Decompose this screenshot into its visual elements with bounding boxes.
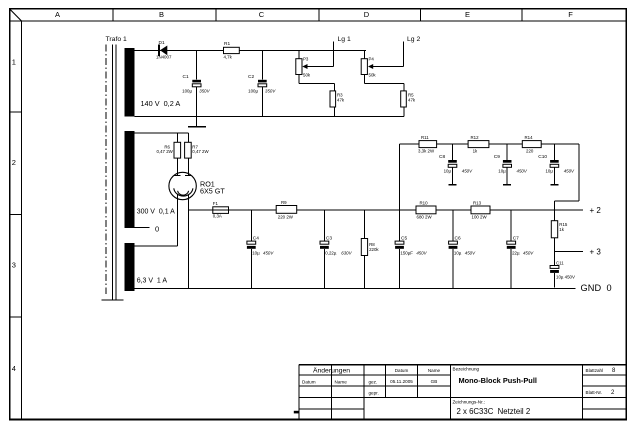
svg-text:C3: C3: [326, 236, 332, 242]
svg-text:Bezeichnung: Bezeichnung: [453, 367, 480, 372]
svg-text:6,3 V 1 A: 6,3 V 1 A: [137, 277, 168, 284]
svg-text:450V: 450V: [263, 251, 274, 256]
svg-text:1N4007: 1N4007: [156, 55, 172, 60]
svg-text:R9: R9: [281, 200, 287, 205]
svg-text:220: 220: [526, 148, 534, 153]
svg-text:22µ: 22µ: [512, 251, 520, 256]
svg-text:450V: 450V: [564, 169, 575, 174]
svg-text:C2: C2: [248, 74, 254, 80]
svg-text:450V: 450V: [465, 251, 476, 256]
svg-text:150µF: 150µF: [400, 251, 413, 256]
svg-text:Mono-Block Push-Pull: Mono-Block Push-Pull: [459, 376, 537, 385]
svg-text:100µ: 100µ: [248, 89, 258, 94]
svg-text:1k: 1k: [473, 148, 478, 153]
svg-text:C6: C6: [455, 236, 461, 242]
svg-text:0,47 2W: 0,47 2W: [156, 149, 173, 154]
svg-text:10µ: 10µ: [444, 169, 452, 174]
svg-text:R11: R11: [421, 135, 429, 140]
svg-text:10µ 450V: 10µ 450V: [556, 274, 575, 279]
svg-text:C: C: [259, 10, 265, 19]
svg-text:4: 4: [12, 364, 16, 373]
svg-text:3,3k 2W: 3,3k 2W: [418, 148, 435, 153]
svg-text:450V: 450V: [517, 169, 528, 174]
svg-text:Name: Name: [428, 368, 441, 373]
svg-text:1: 1: [12, 58, 16, 67]
svg-text:140 V 0,2 A: 140 V 0,2 A: [141, 99, 181, 108]
svg-text:C7: C7: [513, 236, 519, 242]
svg-text:R14: R14: [525, 135, 534, 140]
svg-text:Name: Name: [335, 379, 348, 384]
svg-text:P4: P4: [369, 57, 375, 62]
svg-text:680 2W: 680 2W: [417, 215, 433, 220]
svg-text:450V: 450V: [462, 169, 473, 174]
svg-text:10µ: 10µ: [498, 169, 506, 174]
svg-text:R10: R10: [420, 201, 429, 206]
svg-text:Änderungen: Änderungen: [313, 367, 350, 375]
svg-text:Lg 2: Lg 2: [407, 36, 420, 43]
svg-text:gez.: gez.: [369, 379, 378, 384]
svg-text:R12: R12: [471, 135, 480, 140]
svg-text:450V: 450V: [416, 251, 427, 256]
svg-text:220k: 220k: [369, 247, 379, 252]
svg-text:05.11.2005: 05.11.2005: [390, 379, 413, 384]
svg-text:Blattzahl: Blattzahl: [586, 368, 604, 373]
svg-text:10µ: 10µ: [252, 251, 260, 256]
svg-text:300 V 0,1 A: 300 V 0,1 A: [137, 209, 175, 216]
svg-text:Datum: Datum: [302, 379, 316, 384]
svg-text:GND 0: GND 0: [581, 283, 612, 293]
svg-text:Blatt-Nr.: Blatt-Nr.: [586, 390, 603, 395]
svg-text:6X5 GT: 6X5 GT: [200, 186, 225, 195]
svg-text:10µ: 10µ: [454, 251, 462, 256]
svg-text:1k: 1k: [559, 227, 564, 232]
svg-text:Trafo 1: Trafo 1: [106, 36, 127, 43]
svg-text:100 2W: 100 2W: [472, 215, 488, 220]
svg-text:F1: F1: [213, 201, 219, 206]
svg-text:D: D: [364, 10, 370, 19]
svg-text:50k: 50k: [303, 72, 311, 77]
svg-text:Datum: Datum: [395, 368, 409, 373]
svg-text:D1: D1: [159, 40, 165, 46]
svg-text:100µ: 100µ: [182, 89, 192, 94]
svg-text:0: 0: [155, 225, 159, 234]
svg-text:Zeichnungs-Nr.:: Zeichnungs-Nr.:: [453, 399, 485, 404]
svg-text:gepr.: gepr.: [369, 391, 379, 396]
svg-text:2 x 6C33C Netzteil 2: 2 x 6C33C Netzteil 2: [457, 407, 531, 416]
svg-text:Lg 1: Lg 1: [338, 36, 351, 43]
svg-text:350V: 350V: [265, 89, 276, 94]
svg-text:C4: C4: [253, 236, 259, 242]
svg-text:+ 2: + 2: [590, 206, 602, 215]
svg-text:0,3A: 0,3A: [213, 214, 222, 219]
svg-text:0,47 2W: 0,47 2W: [192, 149, 209, 154]
svg-text:C1: C1: [183, 74, 189, 80]
svg-text:R3: R3: [337, 92, 343, 97]
svg-text:220 2W: 220 2W: [278, 215, 294, 220]
svg-text:A: A: [55, 10, 60, 19]
svg-text:4,7k: 4,7k: [224, 55, 233, 60]
svg-text:C11: C11: [556, 260, 564, 265]
svg-text:C10: C10: [538, 154, 547, 160]
svg-text:GB: GB: [431, 379, 438, 384]
svg-text:50k: 50k: [369, 72, 377, 77]
svg-text:F: F: [568, 10, 573, 19]
svg-text:+ 3: + 3: [590, 247, 602, 256]
svg-text:47k: 47k: [337, 98, 345, 103]
svg-text:630V: 630V: [341, 251, 352, 256]
svg-text:450V: 450V: [523, 251, 534, 256]
svg-text:R13: R13: [473, 201, 482, 206]
svg-text:P3: P3: [303, 57, 309, 62]
svg-text:R5: R5: [408, 92, 414, 97]
svg-text:2: 2: [12, 158, 16, 167]
svg-text:E: E: [465, 10, 470, 19]
svg-text:R1: R1: [224, 41, 230, 47]
svg-text:B: B: [159, 10, 164, 19]
svg-text:C9: C9: [494, 154, 500, 160]
svg-text:0,22µ: 0,22µ: [325, 251, 337, 256]
svg-text:47k: 47k: [408, 98, 416, 103]
svg-text:10µ: 10µ: [545, 169, 553, 174]
svg-text:C8: C8: [439, 154, 445, 160]
svg-text:350V: 350V: [199, 89, 210, 94]
svg-text:3: 3: [12, 261, 16, 270]
svg-text:C5: C5: [401, 236, 407, 242]
